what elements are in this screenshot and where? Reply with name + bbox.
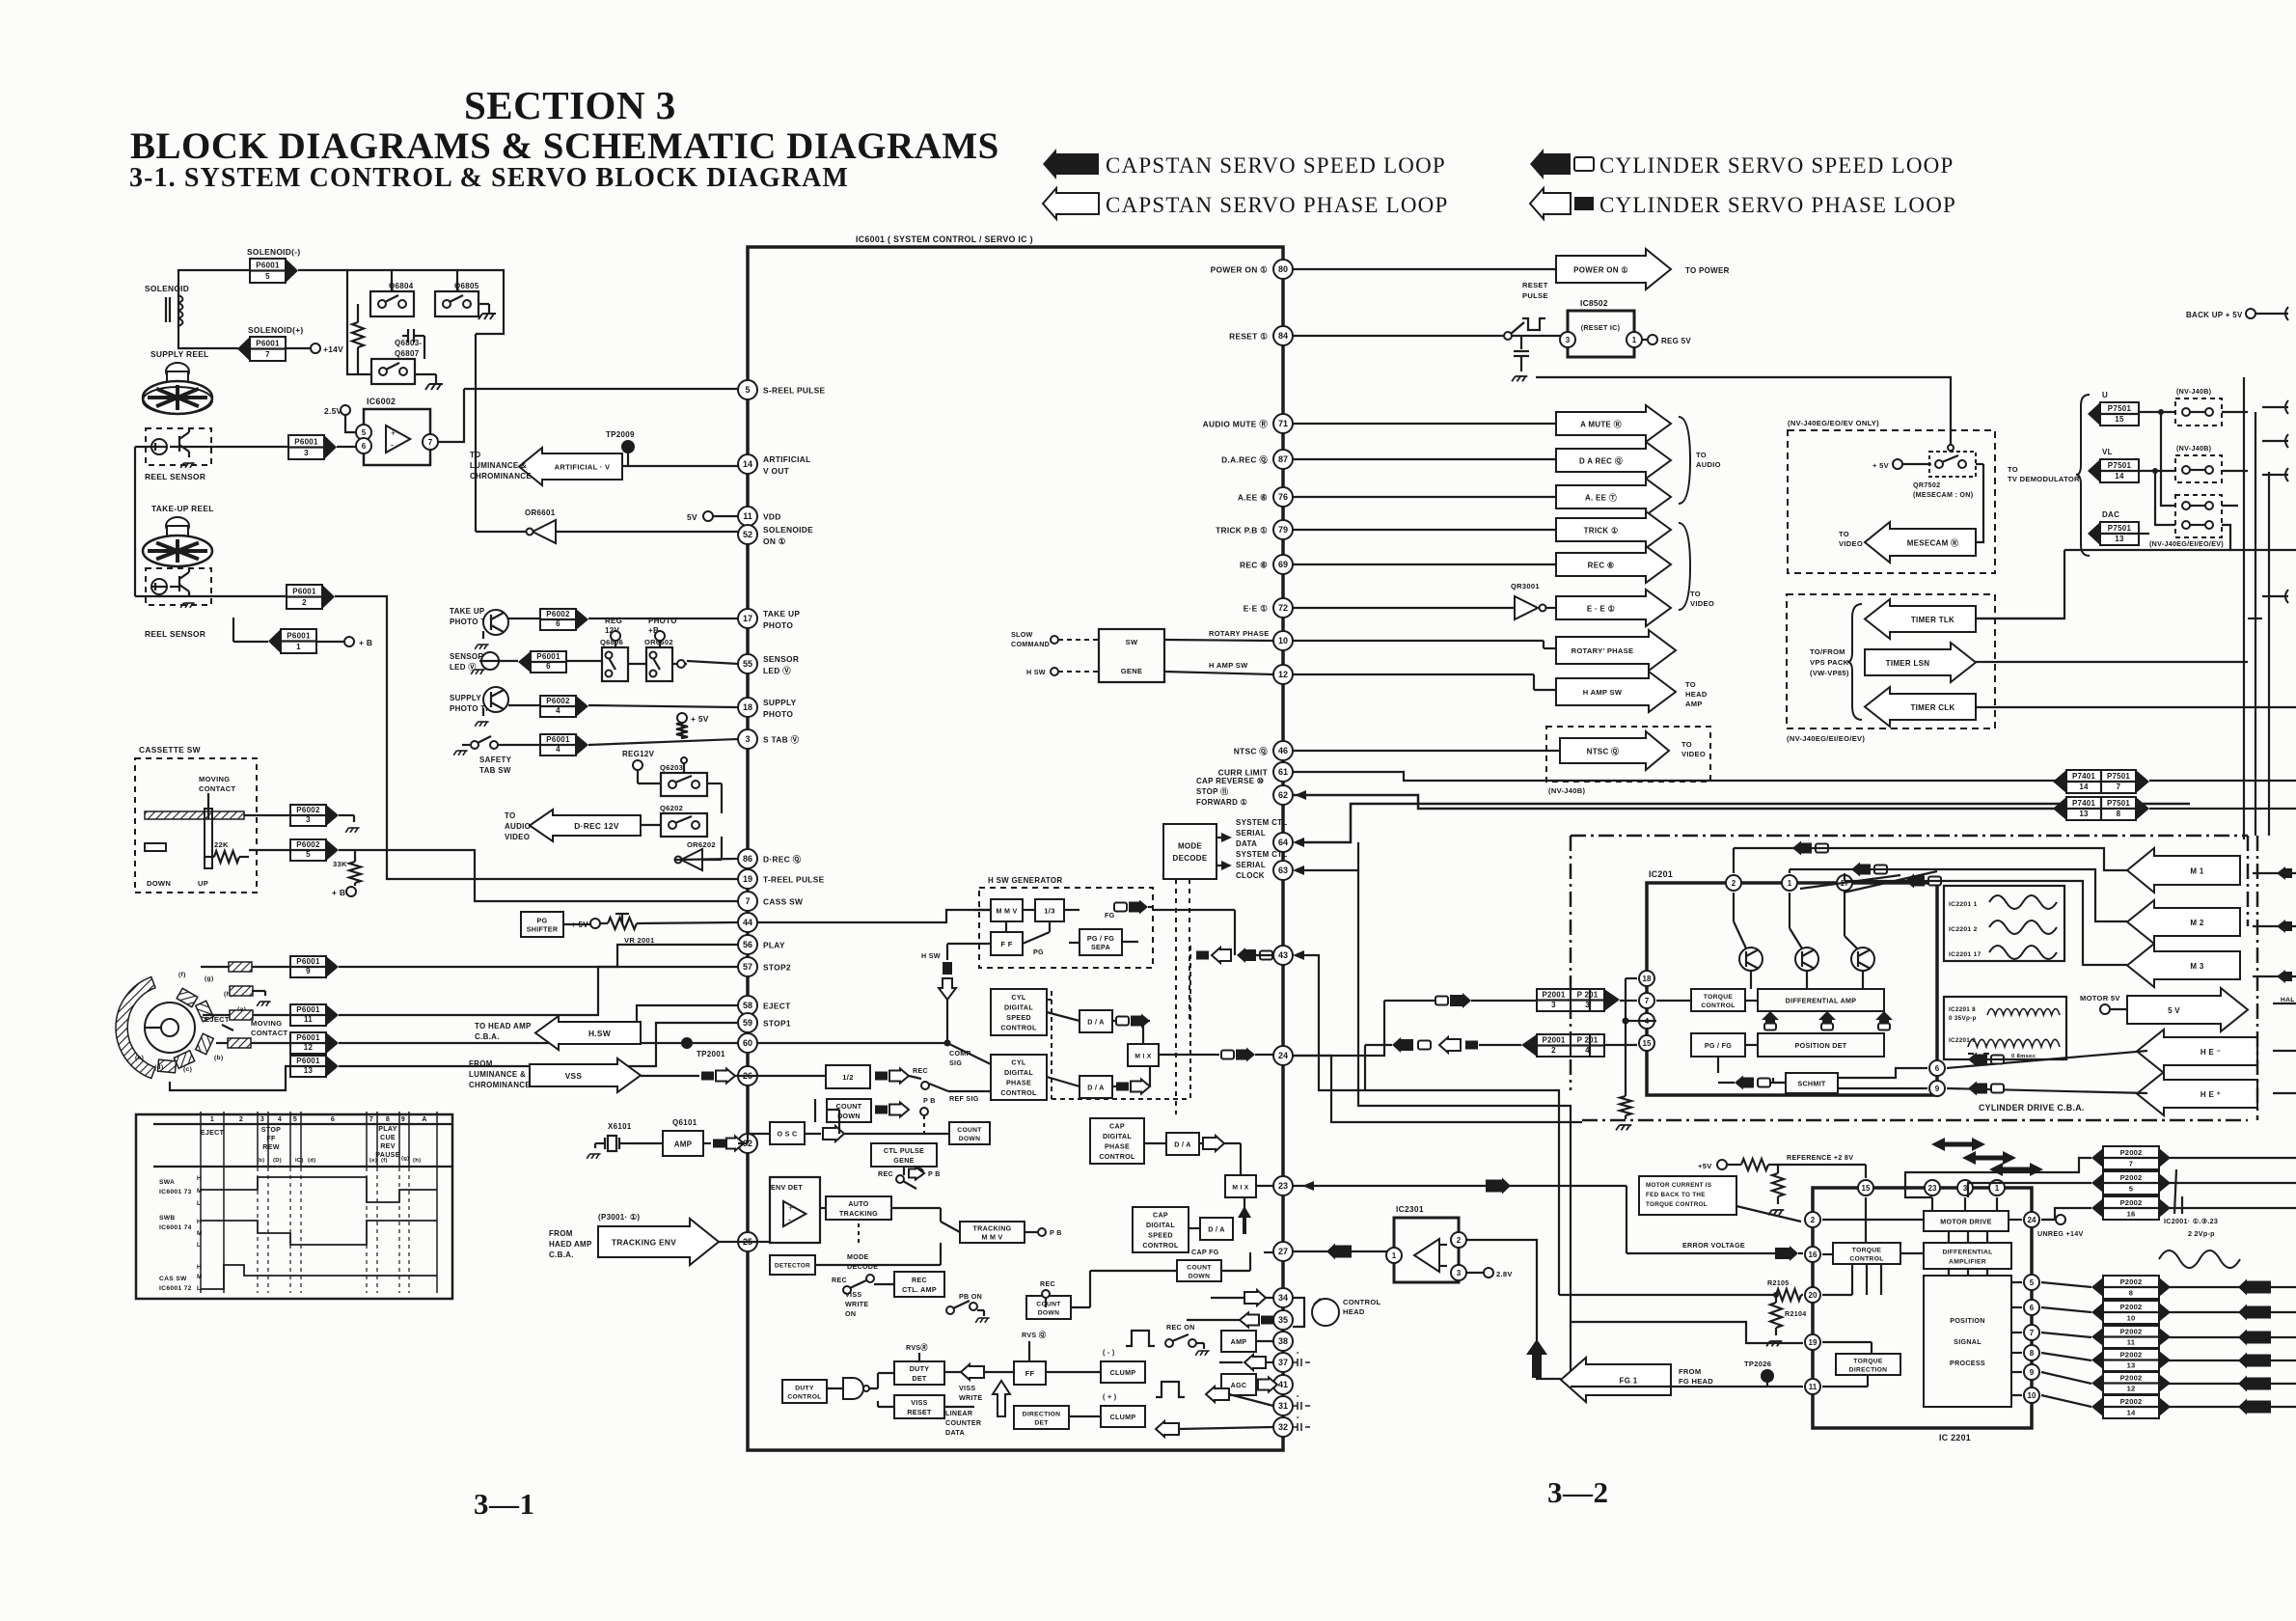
- svg-text:DET: DET: [1034, 1419, 1049, 1426]
- torque control box 2: [1833, 1243, 1900, 1264]
- wire pin23 long: [1293, 1178, 1626, 1254]
- flow before p2001: [1384, 993, 1637, 1008]
- svg-text:2.5V: 2.5V: [324, 406, 342, 416]
- svg-text:TAKE UP: TAKE UP: [763, 609, 800, 618]
- svg-text:(e): (e): [135, 1055, 144, 1061]
- rvs k label: [1022, 1331, 1047, 1361]
- cyl digital speed control box: [991, 989, 1047, 1035]
- svg-text:REC ⑥: REC ⑥: [1240, 561, 1268, 570]
- transistor ic201 b: [1795, 948, 1818, 971]
- black up arrow fg: [1526, 1339, 1547, 1378]
- svg-text:HAED AMP: HAED AMP: [549, 1240, 592, 1249]
- svg-text:P2002: P2002: [2120, 1397, 2143, 1406]
- svg-text:UP: UP: [198, 879, 208, 888]
- svg-text:V OUT: V OUT: [763, 466, 790, 476]
- wire timer clk: [1976, 706, 2296, 708]
- svg-text:OR6202: OR6202: [687, 840, 716, 849]
- rec ctl amp box: [894, 1272, 944, 1297]
- svg-text:SPEED: SPEED: [1006, 1014, 1031, 1022]
- svg-text:WRITE: WRITE: [959, 1394, 982, 1402]
- signal arrow NTSC: [1293, 731, 1669, 770]
- wire pin24 long: [1293, 1056, 1582, 1122]
- svg-text:DOWN: DOWN: [837, 1113, 861, 1120]
- sine wave ic2001: [2159, 1250, 2240, 1268]
- wire Q net down: [475, 334, 477, 532]
- flow pair at 43: [1196, 948, 1231, 963]
- label REG12V: [622, 750, 655, 770]
- svg-text:STOP: STOP: [261, 1126, 281, 1134]
- svg-text:7: 7: [2117, 783, 2121, 791]
- svg-text:CTL PULSE: CTL PULSE: [884, 1147, 924, 1155]
- svg-text:TP2001: TP2001: [697, 1050, 725, 1058]
- svg-text:F F: F F: [1000, 940, 1012, 948]
- svg-text:C.B.A.: C.B.A.: [475, 1032, 500, 1041]
- connector P6001-3: [288, 435, 337, 459]
- svg-text:D A REC Ⓠ: D A REC Ⓠ: [1579, 455, 1623, 465]
- test point TP2009: [606, 430, 635, 466]
- wire pin27 ic2301: [1293, 1244, 1394, 1260]
- svg-text:*: *: [1297, 1395, 1299, 1401]
- svg-text:SUPPLY REEL: SUPPLY REEL: [150, 349, 209, 359]
- flow open upleft arrow: [1156, 1421, 1273, 1437]
- svg-text:M M V: M M V: [996, 907, 1017, 915]
- transistor Q6805: [435, 282, 479, 316]
- svg-text:P2002: P2002: [2120, 1351, 2143, 1360]
- connector P7401-P7501 row1: [2053, 770, 2149, 793]
- svg-text:(P3001· ①): (P3001· ①): [598, 1213, 640, 1222]
- wire pb net: [923, 1115, 925, 1134]
- svg-text:CLUMP: CLUMP: [1110, 1369, 1136, 1377]
- svg-text:RVSⓇ: RVSⓇ: [906, 1343, 928, 1352]
- resistor ic201 gnd: [1616, 1096, 1631, 1130]
- svg-text:BACK UP + 5V: BACK UP + 5V: [2186, 311, 2243, 319]
- svg-text:TO: TO: [505, 811, 516, 820]
- svg-text:AMPLIFIER: AMPLIFIER: [1949, 1258, 1986, 1265]
- svg-text:GENE: GENE: [1121, 667, 1143, 675]
- svg-text:CONTROL: CONTROL: [1849, 1255, 1883, 1262]
- cap digital phase control box: [1090, 1118, 1144, 1164]
- svg-text:CAS SW: CAS SW: [159, 1276, 187, 1282]
- node +5V vr2001: [571, 919, 600, 929]
- svg-text:15: 15: [1862, 1184, 1871, 1193]
- timing swa label: [159, 1175, 203, 1207]
- mix box cap: [1225, 1175, 1256, 1197]
- node +14V: [286, 343, 343, 354]
- svg-text:UNREG +14V: UNREG +14V: [2037, 1230, 2084, 1238]
- svg-text:P6002: P6002: [546, 697, 570, 705]
- wire sensor to P6001-3: [170, 446, 288, 448]
- svg-text:P7501: P7501: [2107, 772, 2130, 781]
- wire p7401 out r2: [2149, 808, 2296, 810]
- signal arrow ROTARY PHASE: [1556, 630, 1676, 671]
- flow before p2001 r2: [1365, 1037, 1637, 1053]
- svg-text:3—1: 3—1: [474, 1487, 535, 1521]
- resistor near Q6804: [352, 304, 364, 374]
- svg-text:PAUSE: PAUSE: [375, 1151, 400, 1159]
- svg-text:H.SW: H.SW: [588, 1029, 611, 1038]
- svg-text:5: 5: [362, 428, 367, 437]
- legend cylinder servo speed loop arrow: [1530, 149, 1594, 179]
- wire curr limit: [1293, 772, 2066, 781]
- svg-text:MOVING: MOVING: [199, 775, 230, 783]
- svg-text:(d): (d): [308, 1158, 315, 1164]
- svg-text:TRACKING: TRACKING: [972, 1224, 1011, 1232]
- svg-text:(c): (c): [183, 1066, 192, 1073]
- svg-text:2: 2: [1811, 1216, 1816, 1224]
- solenoid label: [145, 284, 189, 293]
- reset ic pins: [1560, 332, 1642, 347]
- pg shifter box: [521, 912, 563, 937]
- op-amp IC6001 main box: [748, 247, 1283, 1450]
- svg-text:10: 10: [2127, 1314, 2136, 1323]
- svg-text:IC6001 74: IC6001 74: [159, 1224, 192, 1231]
- svg-text:9: 9: [401, 1115, 405, 1123]
- connector P6002-4: [540, 696, 588, 717]
- svg-text:3-1. SYSTEM CONTROL & SERVO B: 3-1. SYSTEM CONTROL & SERVO BLOCK DIAGRA…: [129, 163, 849, 193]
- svg-text:CONTROL: CONTROL: [1343, 1298, 1381, 1306]
- connector P2002-11: [2091, 1326, 2171, 1348]
- take-up reel sensor label: [145, 629, 205, 639]
- flow symbols top cylinder: [1734, 841, 1828, 874]
- svg-text:46: 46: [1278, 746, 1288, 756]
- signal arrow D A REC: [1293, 442, 1671, 479]
- svg-text:(NV-J40B): (NV-J40B): [2176, 388, 2212, 396]
- connector P6001-6: [518, 651, 566, 673]
- flow m right symbols: [2277, 866, 2292, 983]
- wire cap reverse: [1293, 790, 2066, 809]
- svg-text:H E ⁺: H E ⁺: [2200, 1090, 2221, 1099]
- svg-text:13: 13: [304, 1066, 314, 1075]
- svg-text:SPEED: SPEED: [1148, 1232, 1173, 1240]
- inverter OR6202: [675, 837, 739, 870]
- wire p2002 mid in: [2041, 1282, 2091, 1407]
- svg-text:CYLINDER SERVO SPEED LOOP: CYLINDER SERVO SPEED LOOP: [1599, 153, 1954, 178]
- H SW generator dashed box: [979, 876, 1153, 968]
- rec on switch: [1165, 1324, 1210, 1356]
- svg-text:1: 1: [210, 1115, 214, 1123]
- svg-text:IC6001 72: IC6001 72: [159, 1285, 192, 1292]
- wire play: [339, 945, 738, 967]
- pb on switch: [946, 1293, 990, 1323]
- wire p7501-14: [2139, 468, 2248, 474]
- to head amp label: [475, 1022, 532, 1041]
- signal arrow POWER ON: [1556, 249, 1671, 289]
- svg-text:PROCESS: PROCESS: [1950, 1360, 1985, 1367]
- flow he2: [1968, 1082, 2004, 1096]
- svg-text:D / A: D / A: [1208, 1225, 1224, 1233]
- svg-text:7: 7: [1645, 997, 1650, 1005]
- svg-text:55: 55: [743, 659, 752, 669]
- svg-text:AUTO: AUTO: [848, 1200, 868, 1208]
- ic201 top pins: [1726, 875, 1852, 891]
- svg-text:BLOCK DIAGRAMS & SCHEMATIC DIA: BLOCK DIAGRAMS & SCHEMATIC DIAGRAMS: [130, 125, 999, 167]
- differential amplifier box: [1924, 1243, 2011, 1269]
- svg-text:COUNT: COUNT: [1036, 1301, 1061, 1307]
- svg-text:IC2201 17: IC2201 17: [1949, 951, 1982, 958]
- svg-text:FORWARD ①: FORWARD ①: [1196, 798, 1247, 807]
- wire and viss: [869, 1373, 894, 1407]
- svg-text:CAP: CAP: [1109, 1123, 1125, 1131]
- svg-text:P6002: P6002: [296, 806, 320, 814]
- svg-text:VIDEO: VIDEO: [1839, 539, 1863, 548]
- clump minus box: [1101, 1361, 1145, 1383]
- svg-text:80: 80: [1278, 264, 1288, 274]
- svg-text:62: 62: [1278, 790, 1288, 800]
- svg-text:P B: P B: [928, 1170, 941, 1178]
- title BLOCK DIAGRAMS & SCHEMATIC DIAGRAMS: [130, 125, 999, 167]
- svg-text:7: 7: [745, 896, 750, 906]
- svg-text:IC6002: IC6002: [367, 397, 396, 406]
- connector P2002-8: [2091, 1276, 2171, 1299]
- timer dashed box: [1787, 594, 1995, 728]
- svg-text:COUNT: COUNT: [1187, 1264, 1212, 1271]
- svg-text:CONTROL: CONTROL: [787, 1393, 821, 1400]
- wire pin44: [563, 923, 590, 925]
- wire mode decode to pin64: [1216, 833, 1232, 842]
- wire m lines: [1734, 848, 2127, 965]
- svg-text:REC: REC: [832, 1277, 847, 1284]
- duty det box: [894, 1361, 944, 1385]
- svg-text:POSITION: POSITION: [1950, 1317, 1984, 1325]
- motor 5v label: [2080, 994, 2127, 1014]
- wire IC6002 out: [438, 389, 464, 442]
- svg-text:CTL. AMP: CTL. AMP: [902, 1286, 937, 1294]
- svg-text:P6001: P6001: [536, 652, 560, 661]
- svg-text:M: M: [197, 1274, 203, 1280]
- mesecam dashed box: [1788, 430, 1995, 573]
- wire Q6803 out: [415, 336, 436, 374]
- svg-text:IC8502: IC8502: [1580, 298, 1608, 308]
- label P3001: [598, 1213, 640, 1222]
- svg-text:AMP: AMP: [674, 1140, 693, 1148]
- flow error: [1626, 1246, 1803, 1261]
- svg-text:IC 2201: IC 2201: [1939, 1433, 1971, 1442]
- svg-text:P B: P B: [1050, 1229, 1062, 1237]
- svg-text:H AMP SW: H AMP SW: [1583, 688, 1623, 697]
- svg-text:P6001: P6001: [296, 1057, 320, 1065]
- svg-text:(RESET IC): (RESET IC): [1581, 324, 1621, 332]
- timing swa wave: [201, 1177, 437, 1202]
- svg-text:(NV-J40EG/EO/EV ONLY): (NV-J40EG/EO/EV ONLY): [1788, 419, 1879, 427]
- svg-text:P6002: P6002: [296, 840, 320, 849]
- svg-text:Q6202: Q6202: [660, 804, 683, 812]
- node 2.8v ic2301: [1466, 1268, 1513, 1278]
- legend cylinder servo phase loop text: [1599, 193, 1956, 217]
- svg-text:REF SIG: REF SIG: [949, 1095, 979, 1103]
- flow symbol fg out: [1114, 900, 1153, 915]
- cassette contact post: [205, 809, 212, 868]
- svg-text:6: 6: [331, 1115, 335, 1123]
- svg-text:SEPA: SEPA: [1091, 944, 1110, 951]
- svg-text:61: 61: [1278, 767, 1288, 777]
- svg-text:P2001: P2001: [1542, 1036, 1565, 1045]
- svg-text:P7501: P7501: [2108, 404, 2132, 413]
- svg-text:P2002: P2002: [2120, 1148, 2143, 1157]
- timer bracket: [1847, 604, 1862, 720]
- wire p2002 mid out: [2161, 1287, 2296, 1407]
- svg-text:AUDIO MUTE Ⓡ: AUDIO MUTE Ⓡ: [1203, 420, 1269, 429]
- svg-text:IC2201 2: IC2201 2: [1949, 926, 1978, 933]
- svg-text:STOP1: STOP1: [763, 1019, 791, 1029]
- svg-text:MESECAM Ⓡ: MESECAM Ⓡ: [1907, 537, 1959, 547]
- svg-text:Q6804: Q6804: [389, 282, 414, 290]
- svg-text:18: 18: [1643, 975, 1652, 983]
- svg-text:VR 2001: VR 2001: [624, 936, 654, 945]
- timing table frame: [136, 1114, 452, 1299]
- reference label: [1787, 1154, 1853, 1162]
- svg-text:8: 8: [2030, 1349, 2035, 1358]
- svg-text:PULSE: PULSE: [1522, 291, 1548, 300]
- one-third box: [1035, 899, 1064, 921]
- transistor ic201 a: [1739, 948, 1763, 971]
- flow pin35: [1187, 1313, 1273, 1328]
- minus label: [1103, 1349, 1115, 1357]
- svg-text:0 8msec: 0 8msec: [2011, 1054, 2036, 1059]
- svg-text:5: 5: [265, 272, 270, 281]
- connector P6001-7: [237, 337, 286, 361]
- label DAC: [2102, 510, 2119, 519]
- timing table col numbers: [210, 1115, 427, 1123]
- signal arrow MESECAM: [1865, 522, 1976, 563]
- wire ic2201 internals: [1822, 1197, 2055, 1395]
- ic8502 label: [1580, 298, 1608, 308]
- svg-text:SENSOR: SENSOR: [450, 652, 483, 661]
- svg-text:AUDIO: AUDIO: [505, 822, 531, 831]
- wire solenoid to P6001-5: [178, 270, 250, 295]
- wire t-reel pulse: [335, 596, 738, 879]
- svg-text:DIFFERENTIAL AMP: DIFFERENTIAL AMP: [1786, 997, 1857, 1004]
- svg-text:20: 20: [1809, 1291, 1818, 1300]
- count down rec box: [1026, 1296, 1071, 1319]
- detector box: [770, 1255, 815, 1275]
- svg-text:Q6101: Q6101: [672, 1118, 697, 1127]
- flow pin37: [1219, 1355, 1273, 1370]
- svg-text:P6001: P6001: [546, 735, 570, 744]
- flow ff duty: [944, 1364, 1014, 1380]
- svg-text:PHOTO: PHOTO: [763, 620, 793, 630]
- svg-text:EJECT: EJECT: [201, 1129, 225, 1137]
- svg-text:DATA: DATA: [945, 1429, 965, 1437]
- svg-text:5: 5: [2129, 1185, 2133, 1194]
- svg-text:57: 57: [743, 962, 752, 972]
- svg-text:A.EE ⑥: A.EE ⑥: [1238, 493, 1268, 503]
- page number 3-2: [1547, 1475, 1609, 1509]
- wire cap speed: [1189, 1196, 1244, 1234]
- mode switch rotary: [116, 976, 213, 1078]
- svg-text:SERIAL: SERIAL: [1236, 829, 1266, 838]
- svg-text:1: 1: [296, 643, 301, 651]
- wire direction clump: [1069, 1415, 1101, 1417]
- connector P2002-16: [2091, 1196, 2171, 1220]
- flow cap speed up arrow: [1238, 1206, 1251, 1234]
- svg-text:RESET: RESET: [1522, 281, 1548, 289]
- to luminance chrominance label: [470, 451, 532, 481]
- rec switch: [909, 1076, 991, 1103]
- wire sw gene hamp: [1164, 661, 1273, 674]
- svg-text:P 201: P 201: [1577, 1036, 1599, 1045]
- cassette wire to P6002-5: [249, 849, 290, 851]
- svg-text:P6001: P6001: [296, 1005, 320, 1014]
- supply reel wheel: [143, 363, 212, 414]
- svg-text:T-REEL PULSE: T-REEL PULSE: [763, 875, 825, 885]
- signal arrow M2: [2127, 900, 2240, 944]
- timing play label: [375, 1125, 400, 1159]
- svg-text:DOWN: DOWN: [959, 1136, 980, 1142]
- svg-text:(NV-J40EG/EI/EO/EV): (NV-J40EG/EI/EO/EV): [2149, 540, 2224, 548]
- wire h sw gene left: [921, 910, 991, 960]
- agc box: [1221, 1374, 1256, 1395]
- svg-text:(e): (e): [369, 1158, 377, 1164]
- connector P6002-5: [290, 839, 339, 861]
- wire eject: [339, 1005, 738, 1043]
- wire pin43 bus: [1153, 910, 1273, 963]
- svg-text:ERROR VOLTAGE: ERROR VOLTAGE: [1682, 1242, 1745, 1250]
- to tv demodulator: [2008, 465, 2080, 483]
- svg-text:TAB SW: TAB SW: [479, 766, 511, 775]
- svg-text:DOWN: DOWN: [1038, 1309, 1059, 1316]
- cyl digital phase control box: [991, 1055, 1047, 1100]
- rec switch 2: [832, 1275, 894, 1294]
- signal arrow A EE: [1293, 479, 1671, 515]
- take-up reel sensor box: [146, 568, 211, 605]
- wire ic2301 out: [1466, 1240, 1561, 1379]
- connector P6001-13: [290, 1056, 339, 1077]
- svg-text:DIRECTION: DIRECTION: [1023, 1411, 1061, 1417]
- wire mode sw 12: [216, 1042, 290, 1044]
- wire P6001-3 to IC6002: [337, 446, 365, 448]
- right edge hooks: [2262, 400, 2288, 603]
- thick double arrow 3: [1989, 1163, 2043, 1176]
- connector P2002-13: [2091, 1349, 2171, 1371]
- connector P2002-10: [2091, 1301, 2171, 1324]
- svg-text:5: 5: [745, 385, 750, 395]
- svg-text:13: 13: [2127, 1361, 2136, 1370]
- ic201 left pins: [1639, 971, 1654, 1051]
- mmv box: [991, 899, 1023, 921]
- from fg head: [1679, 1367, 1713, 1386]
- svg-text:TIMER TLK: TIMER TLK: [1911, 616, 1954, 624]
- wire s-reel pulse: [464, 388, 738, 390]
- svg-text:MOTOR CURRENT IS: MOTOR CURRENT IS: [1646, 1182, 1711, 1189]
- wire pin26 to half: [738, 1075, 826, 1077]
- svg-text:CYL: CYL: [1011, 994, 1025, 1002]
- svg-text:22K: 22K: [214, 840, 229, 849]
- label PHOTO +B: [648, 617, 677, 641]
- svg-text:Q6806: Q6806: [600, 638, 623, 646]
- svg-text:35: 35: [1278, 1315, 1288, 1325]
- signal arrow TIMER LSN: [1865, 643, 1976, 682]
- ic201 label: [1649, 869, 1673, 879]
- page number 3-1: [474, 1487, 535, 1521]
- svg-text:TO: TO: [2008, 465, 2018, 474]
- wire artificial v: [622, 465, 738, 467]
- svg-text:TORQUE: TORQUE: [1852, 1247, 1882, 1253]
- +5v mesecam: [1872, 459, 1931, 470]
- svg-text:4: 4: [278, 1115, 282, 1123]
- wire mix cap: [1144, 1143, 1273, 1186]
- svg-text:LUMINANCE &: LUMINANCE &: [470, 461, 527, 470]
- svg-text:7: 7: [2129, 1160, 2133, 1168]
- connector P6001-9: [290, 956, 339, 977]
- timing table sep: [153, 1166, 452, 1168]
- svg-text:CHROMINANCE: CHROMINANCE: [470, 472, 532, 481]
- svg-text:15: 15: [2115, 415, 2124, 424]
- pulse rec on: [1126, 1331, 1155, 1346]
- resistor ref gnd: [1768, 1165, 1784, 1215]
- svg-text:5V: 5V: [687, 512, 697, 522]
- svg-text:X6101: X6101: [608, 1122, 632, 1131]
- svg-text:12: 12: [304, 1043, 314, 1052]
